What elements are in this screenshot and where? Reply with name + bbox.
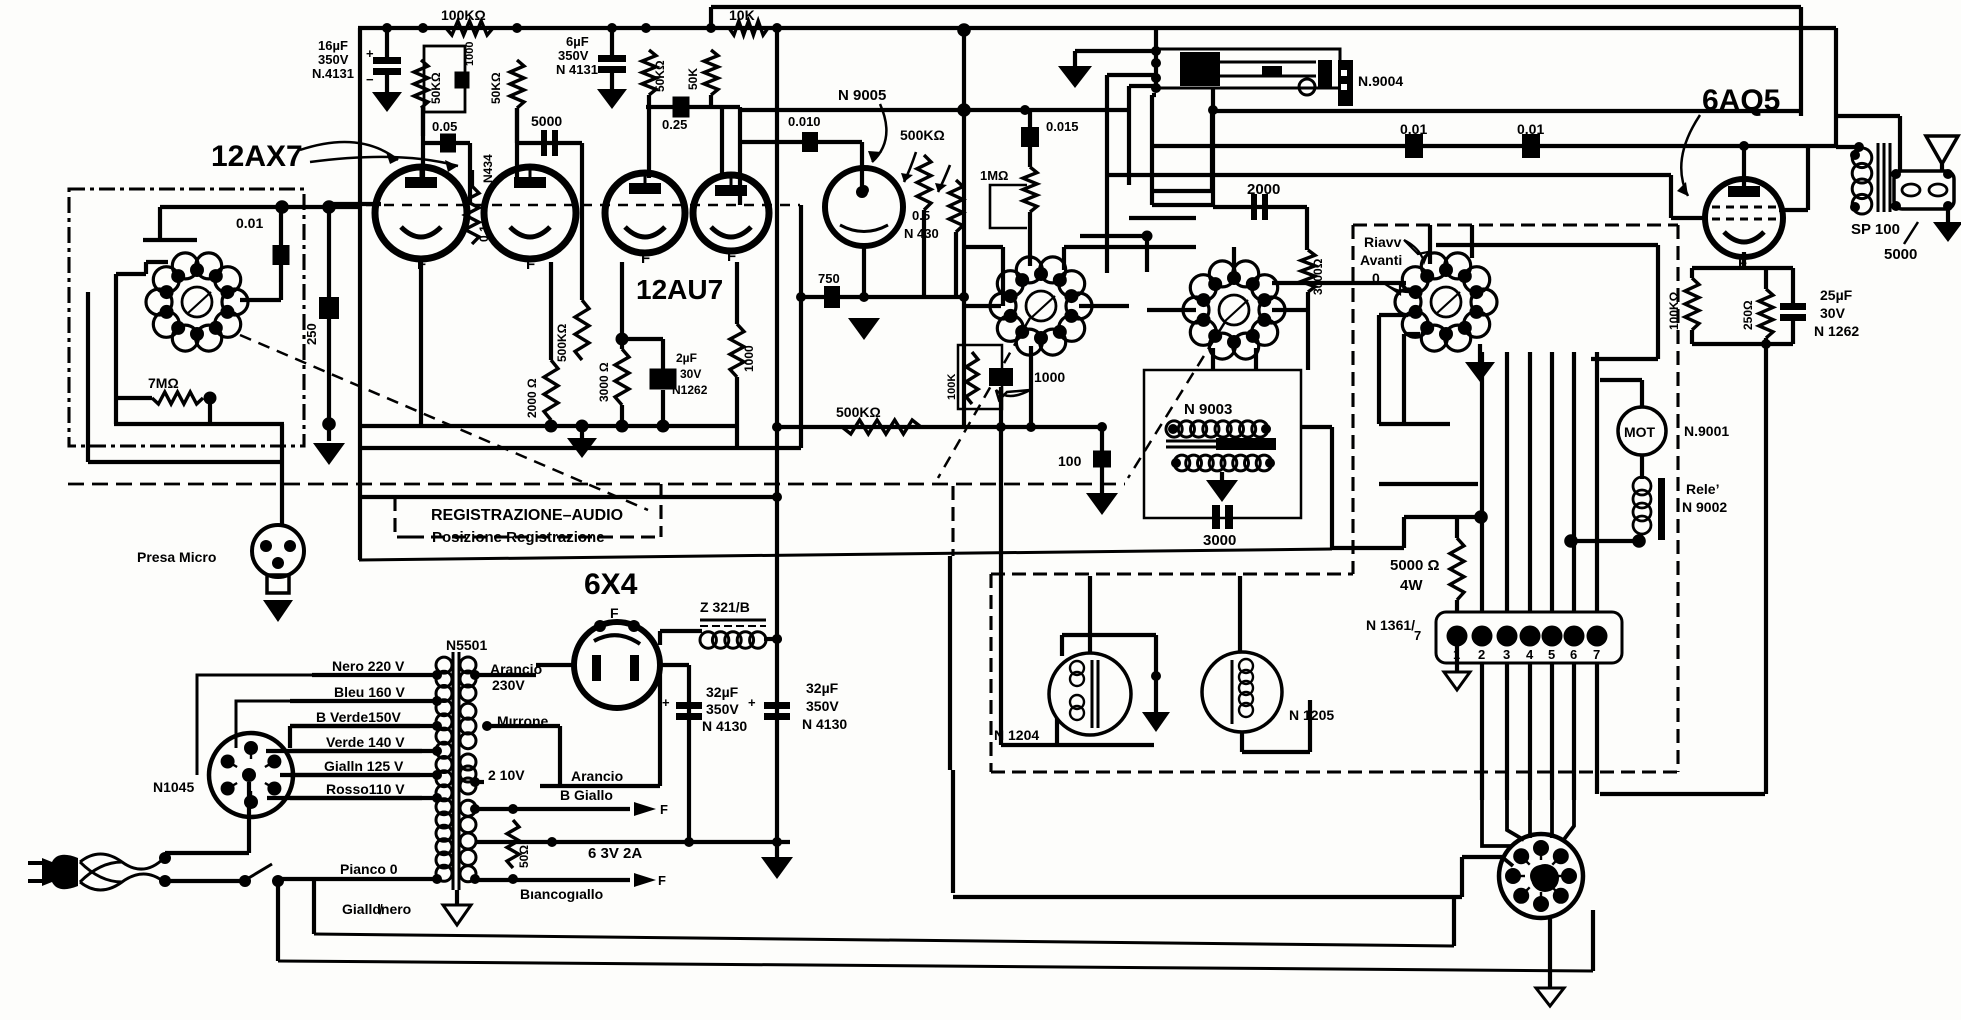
wire (1154, 635, 1158, 712)
wire (536, 663, 574, 667)
ground 16µF 2 (597, 89, 627, 109)
capacitor 0.01 mic (273, 245, 290, 265)
junction (159, 875, 171, 887)
junction (470, 670, 480, 680)
svg-text:7: 7 (1414, 628, 1421, 643)
svg-text:Bıancogıallo: Bıancogıallo (520, 886, 603, 902)
wire (1220, 472, 1224, 480)
box N9003 (1144, 370, 1301, 518)
svg-text:2000: 2000 (1247, 181, 1280, 198)
junction (1151, 671, 1161, 681)
arrow 12AX7 to tubes (300, 142, 398, 160)
wire (1460, 857, 1464, 897)
svg-text:Bleu 160 V: Bleu 160 V (334, 684, 405, 700)
wire (475, 807, 630, 811)
capacitor 250 (319, 297, 339, 319)
svg-text:0.01: 0.01 (1517, 121, 1544, 137)
resistor 5000Ω 4W (1450, 538, 1464, 600)
svg-text:5000: 5000 (531, 113, 562, 129)
ground filament (567, 438, 597, 458)
svg-text:6 3V 2A: 6 3V 2A (588, 845, 642, 862)
wire (1791, 268, 1795, 303)
svg-text:50KΩ: 50KΩ (429, 72, 443, 104)
socket blob (1531, 864, 1559, 892)
svg-text:N 1361/: N 1361/ (1366, 617, 1415, 633)
speaker terminals (1902, 184, 1920, 196)
wire (1301, 425, 1332, 429)
wire (860, 142, 864, 188)
wire bundle down (1572, 663, 1576, 800)
junction (1739, 141, 1749, 151)
wire (1001, 743, 1154, 747)
junction tap (432, 670, 442, 680)
svg-text:350V: 350V (318, 52, 349, 67)
box registrazione (395, 484, 661, 537)
wire bundle down (1480, 663, 1484, 800)
wire (1100, 427, 1104, 451)
junction (1564, 534, 1578, 548)
wire (1100, 467, 1104, 493)
svg-text:0.010: 0.010 (788, 114, 821, 129)
wire (240, 298, 281, 302)
ground socket (1536, 988, 1564, 1006)
wire bundle (1572, 352, 1576, 612)
wire (1470, 225, 1474, 258)
wire (1404, 515, 1481, 519)
wire (622, 337, 663, 341)
wire (1571, 539, 1641, 543)
speaker cone (1926, 136, 1958, 164)
capacitor 3000 (1212, 505, 1233, 529)
svg-text:Rele’: Rele’ (1686, 481, 1719, 497)
wire (962, 297, 966, 426)
transformer core (453, 652, 459, 890)
svg-text:32µF: 32µF (706, 684, 739, 700)
wire (1080, 234, 1147, 238)
wire (1640, 455, 1644, 479)
wire (312, 879, 316, 934)
capacitor 2000 (1251, 194, 1268, 220)
junction (1142, 231, 1153, 242)
wire N1205 top (1238, 576, 1242, 652)
ground head (1058, 66, 1092, 88)
wire (799, 205, 803, 297)
svg-text:50K: 50K (686, 68, 700, 90)
tube 6X4 (574, 620, 660, 708)
junction filament (576, 420, 589, 433)
wire (247, 782, 251, 853)
wire (515, 108, 519, 178)
svg-text:N 4130: N 4130 (702, 718, 747, 734)
svg-text:−: − (366, 72, 374, 87)
wire (954, 232, 958, 297)
terminal 6 (1564, 626, 1585, 647)
wire bundle down (1505, 663, 1509, 800)
wire (764, 637, 777, 641)
wire y497 (359, 495, 777, 499)
head N9004 mount (1338, 60, 1353, 106)
wire (735, 426, 739, 448)
wire corner (709, 7, 713, 28)
resistor 50KΩ (4) (704, 50, 718, 95)
wire (1779, 208, 1808, 212)
wire bundle (1595, 352, 1599, 612)
terminal 4 (1520, 626, 1541, 647)
tube 6AQ5 (1705, 179, 1783, 272)
junction (1850, 150, 1860, 160)
svg-text:SP 100: SP 100 (1851, 221, 1900, 238)
junction head (1151, 73, 1161, 83)
wire (1640, 380, 1644, 407)
wire (385, 75, 389, 92)
wire tap Rosso110 V (290, 796, 437, 800)
svg-text:MOT: MOT (1624, 424, 1656, 440)
wire (709, 95, 713, 107)
wire (1764, 268, 1768, 289)
junction (1026, 422, 1036, 432)
wire SW2-SW3 (1272, 281, 1406, 285)
svg-text:N 1262: N 1262 (1814, 323, 1859, 339)
svg-text:Presa Micro: Presa Micro (137, 549, 216, 565)
wire tap Verde 140 V (290, 749, 437, 753)
junction bus (641, 23, 651, 33)
coil N9003 bottom (1174, 455, 1272, 471)
arrow F biancogiallo (634, 873, 656, 887)
wire (279, 207, 283, 248)
wire busB (278, 961, 1593, 971)
svg-text:1000: 1000 (464, 42, 476, 66)
svg-text:0.05: 0.05 (432, 119, 457, 134)
capacitor 0.25 (673, 97, 690, 118)
ground transformer (443, 905, 471, 925)
resistor 3000Ω (1301, 250, 1315, 292)
svg-text:+: + (366, 46, 374, 61)
tube V2 12AU7a (605, 173, 685, 267)
wire socket feed 2 (1507, 800, 1524, 840)
wire (421, 108, 425, 178)
junction (959, 292, 969, 302)
svg-text:N.9001: N.9001 (1684, 423, 1729, 439)
junction (508, 804, 518, 814)
wire (475, 780, 484, 784)
resistor 50Ω (507, 820, 519, 868)
svg-text:100: 100 (1058, 453, 1082, 469)
resistor 1MΩ (1023, 167, 1037, 212)
junction (856, 186, 868, 198)
wire (1404, 332, 1420, 336)
svg-text:30V: 30V (680, 367, 701, 381)
svg-text:N 4130: N 4130 (802, 716, 847, 732)
wire (1692, 342, 1793, 346)
wire line y175 (1107, 173, 1671, 177)
junction (470, 804, 480, 814)
wire (1669, 175, 1673, 218)
wire (1028, 147, 1032, 167)
junction (1168, 424, 1178, 434)
arrow pot (901, 152, 950, 192)
wire socket feed 5 (1562, 800, 1574, 842)
svg-text:25µF: 25µF (1820, 287, 1853, 303)
wire x950 (948, 556, 952, 770)
junction filament (616, 420, 629, 433)
junction (204, 392, 217, 405)
resistor 50KΩ (3) (642, 50, 656, 95)
boundary dashed box3 (1353, 225, 1678, 772)
junction (482, 721, 492, 731)
wire (423, 141, 470, 145)
wire (1213, 205, 1307, 209)
junction (1761, 339, 1771, 349)
wire (1379, 422, 1450, 426)
wire (280, 773, 420, 777)
arrow F giallo (634, 802, 656, 816)
wire (419, 262, 423, 426)
junction (275, 200, 289, 214)
junction bus (607, 23, 617, 33)
ground SW3 (1465, 362, 1495, 382)
svg-text:6: 6 (1570, 647, 1577, 662)
wire (1254, 348, 1258, 370)
wire bundle down (1528, 663, 1532, 800)
wire (951, 770, 955, 893)
svg-text:N1045: N1045 (153, 779, 194, 795)
wire grid solid (329, 202, 381, 206)
junction (772, 634, 782, 644)
wire socket feed 3 (1528, 800, 1532, 838)
svg-text:Riavv: Riavv (1364, 234, 1402, 250)
tube N9005 arc (840, 225, 888, 232)
junction (1632, 534, 1646, 548)
svg-text:0.01: 0.01 (236, 215, 263, 231)
junction (1943, 201, 1953, 211)
arrow 6AQ5 (1681, 115, 1700, 196)
svg-text:3000 Ω: 3000 Ω (597, 362, 611, 402)
wire bundle (1505, 352, 1509, 612)
junction (322, 417, 336, 431)
ground mic (263, 600, 293, 622)
wire (999, 560, 1003, 745)
wire (1150, 95, 1154, 205)
wire (1064, 245, 1196, 249)
rotary switch S1a (990, 257, 1092, 355)
terminal 2 (1472, 626, 1493, 647)
junction bus (706, 23, 716, 33)
transformer secondary 4 (460, 800, 476, 882)
wire cathode down (1764, 344, 1768, 794)
wire nero run (197, 675, 437, 775)
resistor 100K (966, 352, 978, 404)
wire (1595, 663, 1599, 794)
junction (322, 200, 336, 214)
wire (114, 274, 118, 424)
resistor 500KΩ (3) (575, 300, 589, 360)
svg-text:350V: 350V (558, 48, 589, 63)
wire (1075, 49, 1156, 53)
wire (1211, 111, 1215, 205)
ground 16µF (372, 92, 402, 112)
svg-text:+: + (748, 695, 756, 710)
wire line y111 (1213, 109, 1800, 113)
socket 12AX7 bottom view (146, 253, 248, 351)
wire (88, 460, 282, 464)
wire main vertical x777 (775, 28, 779, 876)
arrow N9005 (872, 104, 886, 162)
svg-text:6X4: 6X4 (584, 568, 638, 601)
junction (1474, 510, 1488, 524)
wire y448 (359, 446, 801, 450)
wire (327, 207, 331, 441)
wire bundle (1480, 352, 1484, 612)
resistor 500KΩ pot (917, 155, 931, 210)
wire (290, 724, 420, 728)
wire 6.3V line (475, 840, 790, 844)
wire (1548, 918, 1552, 988)
svg-text:5: 5 (1548, 647, 1555, 662)
wire (862, 246, 866, 297)
junction (772, 422, 782, 432)
junction (772, 634, 782, 644)
svg-text:F: F (610, 605, 619, 621)
speaker box (1894, 171, 1954, 209)
tube V1 12AX7b (484, 167, 576, 273)
junction tap (432, 770, 442, 780)
junction tap (432, 746, 442, 756)
choke Z321 core (700, 620, 766, 626)
svg-text:3000: 3000 (1203, 532, 1236, 549)
wire (1029, 346, 1033, 427)
wire (953, 895, 1462, 899)
wire (1330, 427, 1334, 549)
wire (1455, 600, 1459, 612)
wire (558, 726, 562, 786)
wire (1060, 635, 1064, 656)
svg-text:2000 Ω: 2000 Ω (525, 378, 539, 418)
linkage dashed diagonal 3 (1128, 322, 1225, 478)
svg-text:50Ω: 50Ω (517, 845, 531, 868)
svg-text:N434: N434 (481, 154, 495, 183)
svg-text:500KΩ: 500KΩ (836, 404, 881, 420)
terminal 1 (1447, 626, 1468, 647)
junction bus (512, 23, 522, 33)
wire (1639, 535, 1643, 541)
wire (999, 387, 1003, 427)
wire (1791, 321, 1795, 344)
wire (549, 420, 553, 426)
junction head (1151, 46, 1161, 56)
boundary dash-dot box left (69, 189, 304, 446)
wire main vertical x360 (358, 28, 362, 560)
wire (1055, 718, 1059, 745)
wire (266, 749, 422, 753)
junction bus (418, 23, 428, 33)
wire (1428, 225, 1432, 264)
wire (661, 390, 665, 426)
wire (517, 141, 582, 145)
head N9004 body (1156, 49, 1340, 95)
svg-text:1000: 1000 (1034, 369, 1065, 385)
junction (508, 874, 518, 884)
junction tap (432, 793, 442, 803)
svg-text:350V: 350V (706, 701, 739, 717)
wire (1898, 116, 1902, 171)
ground N1204 (1142, 712, 1170, 732)
wire (687, 665, 691, 842)
rotary switch S1c (1395, 253, 1497, 351)
wire (1940, 164, 1944, 171)
capacitor 1000 (455, 72, 470, 89)
wire 110 line (740, 108, 1129, 112)
wire right drop 2 (1834, 28, 1838, 147)
arrow 1000 (996, 390, 1030, 400)
transformer primary coil 2 (436, 799, 452, 882)
wire bundle (1550, 352, 1554, 612)
svg-text:6µF: 6µF (566, 34, 589, 49)
wire (1211, 348, 1215, 370)
wire (1692, 266, 1793, 270)
wire (1671, 216, 1705, 220)
svg-text:0.015: 0.015 (1046, 119, 1079, 134)
svg-text:F: F (658, 873, 666, 888)
wire (720, 107, 724, 178)
svg-text:0: 0 (1372, 270, 1380, 286)
wire (1591, 357, 1658, 361)
svg-text:30V: 30V (1820, 305, 1846, 321)
rotary switch S1b (1183, 261, 1285, 359)
svg-text:F: F (660, 802, 668, 817)
wire (1272, 308, 1307, 312)
svg-text:3000Ω: 3000Ω (1311, 258, 1325, 295)
erase head N1204 (1049, 653, 1131, 735)
wire (1402, 334, 1406, 426)
svg-text:50KΩ: 50KΩ (653, 60, 667, 92)
arrow riavv (1404, 240, 1428, 262)
svg-text:N 9005: N 9005 (838, 87, 886, 104)
junction (1089, 652, 1091, 654)
wire socket feed 1 (1482, 800, 1512, 846)
wire (1690, 268, 1694, 278)
junction head (1151, 83, 1161, 93)
wire (1147, 308, 1196, 312)
wire socket feed left (1502, 857, 1513, 866)
wire (1152, 203, 1213, 207)
wire (1129, 84, 1156, 88)
wire (1305, 207, 1309, 250)
wire (1379, 482, 1478, 486)
svg-text:500KΩ: 500KΩ (900, 127, 945, 143)
capacitor 750 (824, 286, 840, 308)
linkage dashed diagonal 1 (240, 335, 648, 510)
junction (1943, 169, 1953, 179)
wire (660, 629, 702, 633)
wire (1107, 73, 1156, 77)
wire (1079, 304, 1129, 308)
wire y560 (359, 549, 1332, 560)
svg-text:350V: 350V (806, 698, 839, 714)
svg-text:B Verde150V: B Verde150V (316, 709, 401, 725)
wire (1455, 517, 1459, 538)
twisted pair (80, 854, 164, 869)
wire (1600, 792, 1765, 796)
wire (1742, 146, 1746, 186)
svg-text:32µF: 32µF (806, 680, 839, 696)
svg-text:N.4131: N.4131 (312, 66, 354, 81)
svg-text:F: F (727, 248, 736, 265)
svg-text:N 9003: N 9003 (1184, 401, 1232, 418)
junction filament (657, 420, 670, 433)
junction (1097, 422, 1107, 432)
wire (114, 422, 284, 426)
wire tap Bleu 160 V (290, 699, 437, 703)
